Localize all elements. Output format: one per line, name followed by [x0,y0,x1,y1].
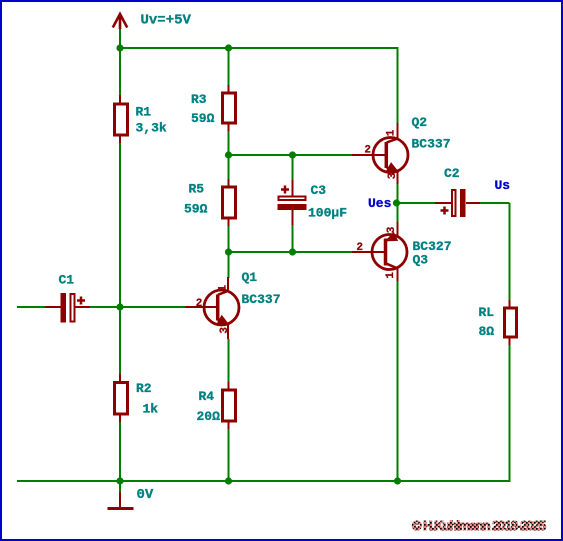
svg-text:Us: Us [495,178,511,193]
svg-text:3: 3 [386,226,398,233]
svg-text:3,3k: 3,3k [136,121,167,136]
svg-text:R5: R5 [189,182,205,197]
svg-text:100µF: 100µF [308,206,347,221]
svg-text:3: 3 [219,327,231,334]
svg-text:R2: R2 [136,381,152,396]
svg-text:C2: C2 [444,166,460,181]
svg-text:Q3: Q3 [413,253,429,268]
svg-text:0V: 0V [137,487,154,503]
svg-text:R1: R1 [136,105,152,120]
svg-text:1: 1 [385,129,397,136]
svg-text:C1: C1 [59,273,75,288]
svg-text:59Ω: 59Ω [184,202,208,217]
svg-text:R4: R4 [199,389,215,404]
svg-text:1: 1 [217,285,229,292]
svg-text:59Ω: 59Ω [191,111,215,126]
svg-text:1: 1 [385,272,397,279]
svg-text:C3: C3 [311,183,327,198]
svg-text:Uv=+5V: Uv=+5V [141,13,192,29]
svg-text:8Ω: 8Ω [479,324,495,339]
svg-text:1k: 1k [143,402,159,417]
svg-text:Q1: Q1 [242,270,258,285]
svg-text:20Ω: 20Ω [197,409,221,424]
svg-text:3: 3 [387,172,399,179]
svg-text:2: 2 [356,242,363,254]
svg-text:BC337: BC337 [412,137,451,152]
svg-text:Ues: Ues [368,196,392,211]
svg-text:RL: RL [479,305,495,320]
svg-text:R3: R3 [191,92,207,107]
svg-text:© H.Kuhlmann 2018-2025: © H.Kuhlmann 2018-2025 [412,518,546,533]
svg-text:2: 2 [196,298,203,310]
svg-text:BC337: BC337 [242,292,281,307]
svg-text:Q2: Q2 [412,115,428,130]
svg-text:2: 2 [364,145,371,157]
